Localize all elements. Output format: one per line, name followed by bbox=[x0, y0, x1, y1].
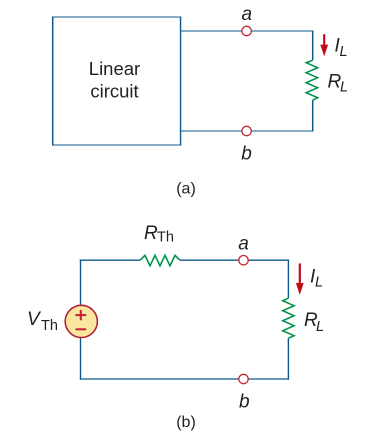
svg-text:a: a bbox=[242, 4, 253, 25]
svg-text:a: a bbox=[238, 233, 249, 254]
svg-text:V: V bbox=[27, 309, 42, 330]
svg-text:(a): (a) bbox=[176, 181, 196, 198]
svg-text:b: b bbox=[241, 144, 252, 165]
svg-text:L: L bbox=[340, 44, 348, 60]
svg-text:Th: Th bbox=[41, 318, 58, 334]
svg-text:L: L bbox=[316, 319, 324, 335]
svg-text:L: L bbox=[340, 80, 348, 96]
svg-text:L: L bbox=[315, 275, 323, 291]
svg-text:(b): (b) bbox=[176, 414, 196, 431]
svg-text:circuit: circuit bbox=[90, 81, 138, 102]
svg-text:R: R bbox=[144, 223, 158, 244]
svg-text:b: b bbox=[239, 392, 250, 413]
svg-text:Linear: Linear bbox=[89, 58, 140, 79]
svg-text:Th: Th bbox=[157, 230, 174, 246]
